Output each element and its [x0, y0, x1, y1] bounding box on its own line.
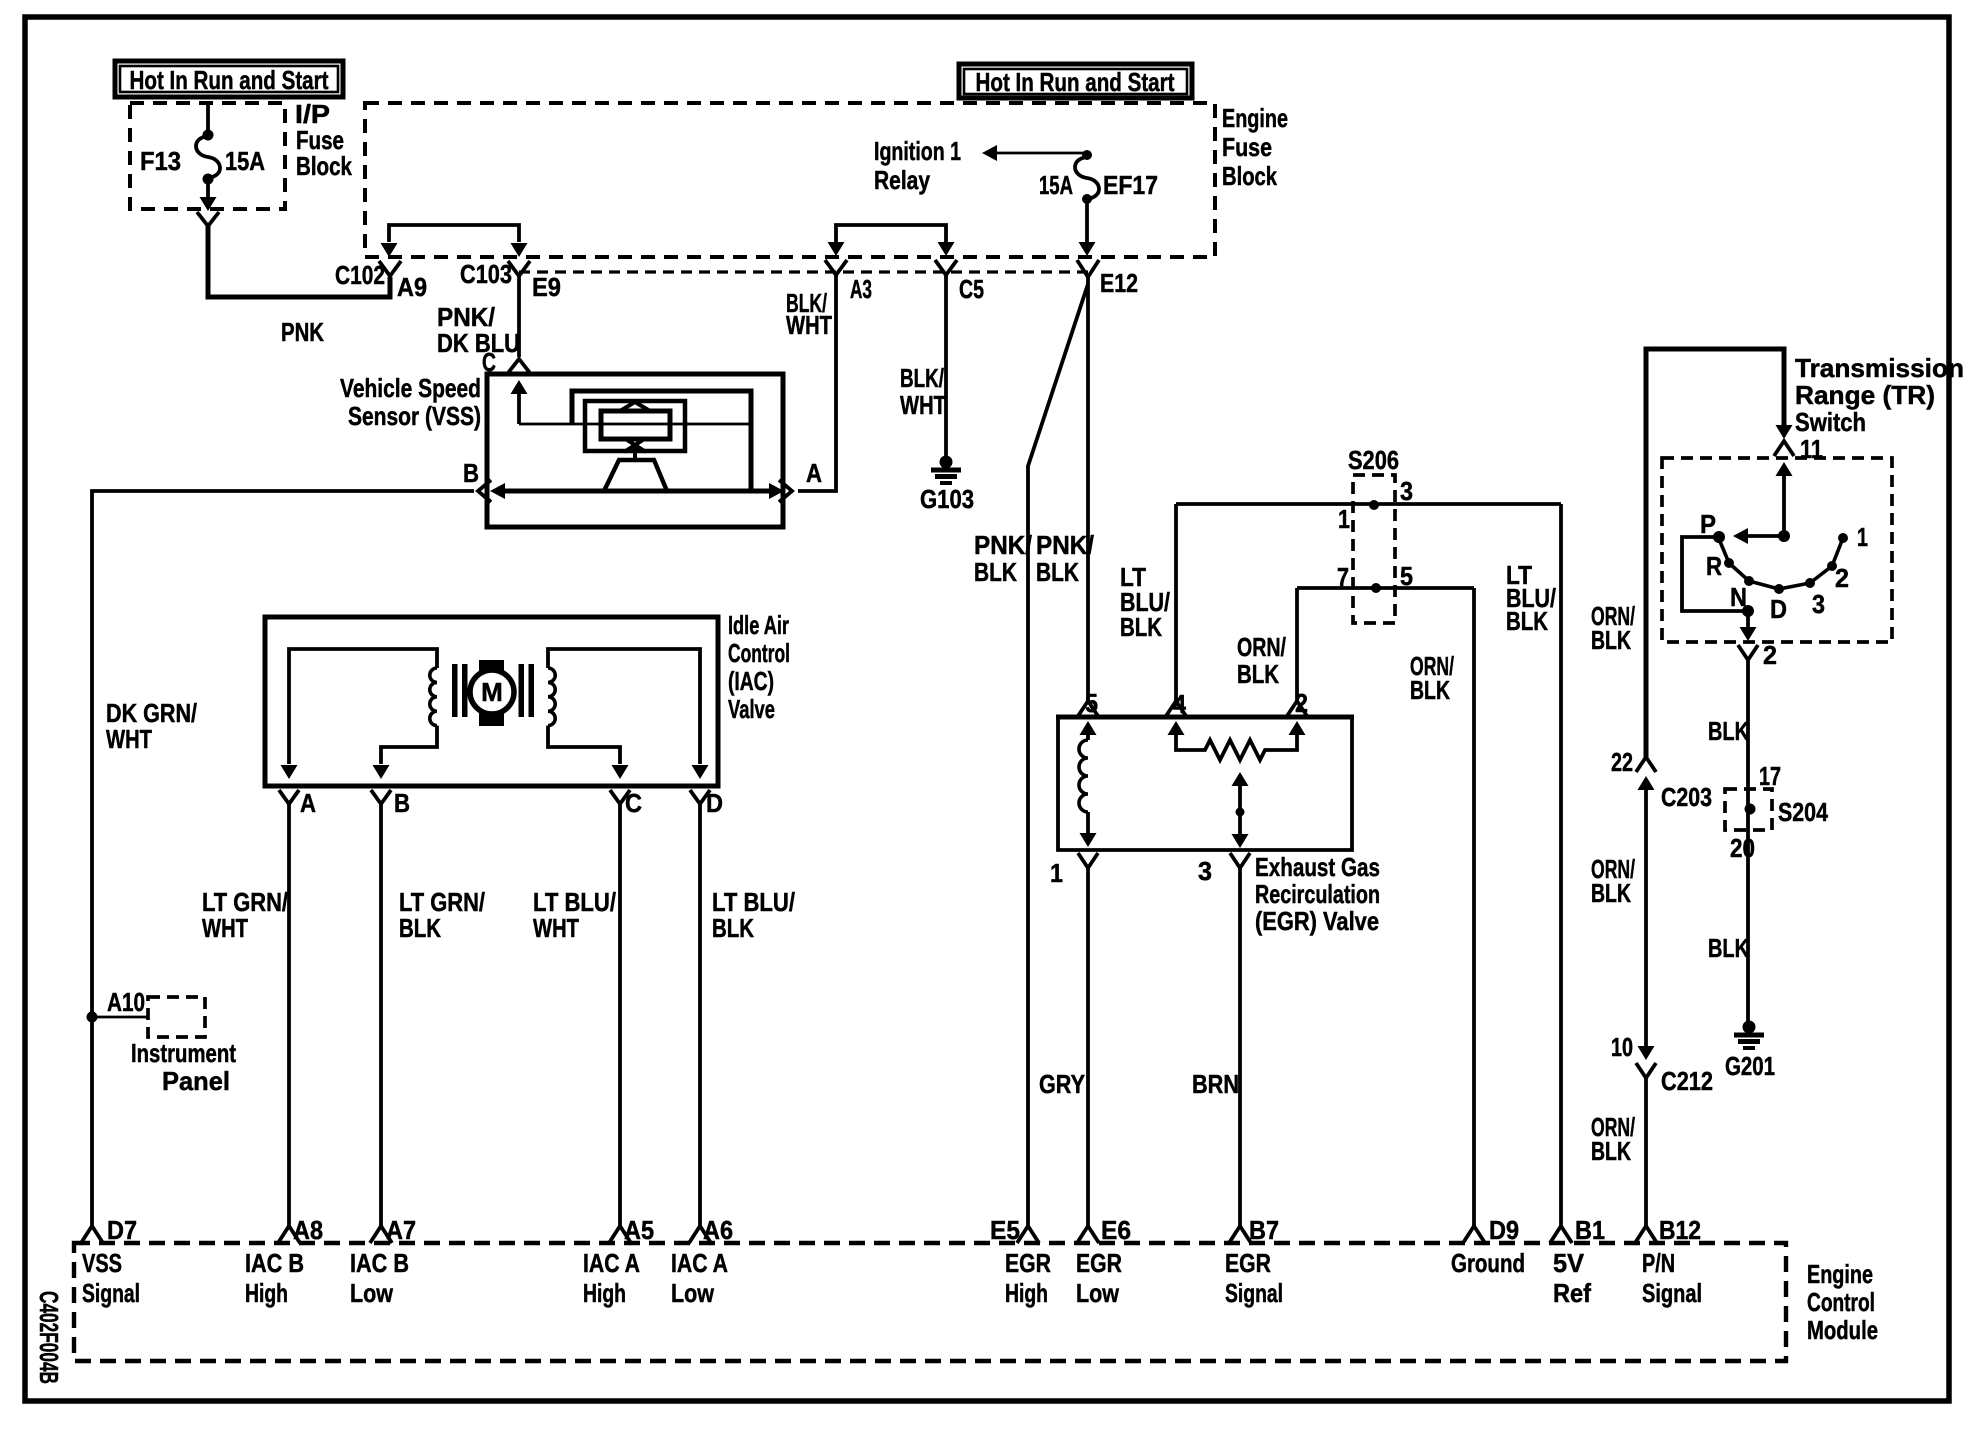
svg-text:M: M [481, 677, 503, 707]
connector A at VSS [779, 480, 792, 502]
svg-text:F13: F13 [140, 146, 181, 176]
EGR valve box [1056, 715, 1354, 720]
svg-text:PNK/: PNK/ [974, 530, 1032, 560]
svg-text:Valve: Valve [728, 694, 775, 724]
wire LT BLU/BLK S206-1 to EGR 4 [1174, 504, 1178, 702]
Idle Air Control valve box [265, 617, 718, 786]
svg-text:Signal: Signal [1642, 1278, 1702, 1308]
svg-text:High: High [583, 1278, 626, 1308]
svg-text:IAC B: IAC B [245, 1248, 304, 1278]
svg-text:Sensor (VSS): Sensor (VSS) [348, 401, 481, 431]
wire DK GRN/WHT B to D7 [92, 491, 474, 1226]
svg-text:WHT: WHT [106, 724, 152, 754]
wire ORN/BLK loop over TR switch [1646, 349, 1784, 757]
svg-text:B12: B12 [1659, 1215, 1701, 1245]
svg-text:BLK: BLK [712, 913, 754, 943]
svg-text:C203: C203 [1661, 782, 1712, 812]
svg-text:2: 2 [1835, 563, 1849, 593]
svg-text:Ground: Ground [1451, 1248, 1525, 1278]
fuse EF17 15A [1075, 157, 1099, 199]
svg-text:15A: 15A [1039, 170, 1073, 200]
ECM pin B1 [1550, 1226, 1572, 1243]
connector row line C102-E12 (dashed) [519, 270, 1089, 273]
svg-text:BLK: BLK [974, 557, 1017, 587]
svg-text:A8: A8 [293, 1215, 323, 1245]
svg-text:B7: B7 [1249, 1215, 1279, 1245]
svg-text:Instrument: Instrument [131, 1038, 236, 1068]
ground G103 [940, 456, 953, 469]
svg-text:5: 5 [1085, 688, 1098, 718]
wire LT GRN/WHT A to A8 [287, 804, 291, 1226]
svg-text:Ignition 1: Ignition 1 [874, 136, 961, 166]
Vehicle Speed Sensor box [487, 374, 783, 527]
egr solenoid coil [1086, 733, 1090, 740]
flag: Hot In Run and Start (Engine) [959, 64, 1192, 98]
connector C at VSS [508, 359, 530, 373]
svg-text:A10: A10 [107, 987, 145, 1017]
connector 2 below TR [1738, 645, 1758, 660]
svg-text:BLK: BLK [1506, 606, 1548, 636]
egr wiper [1232, 772, 1249, 786]
svg-text:BLK: BLK [1708, 716, 1749, 746]
vss pickup bowtie [624, 438, 646, 460]
svg-text:1: 1 [1050, 858, 1063, 888]
svg-text:Transmission: Transmission [1795, 353, 1964, 383]
svg-text:Low: Low [350, 1278, 394, 1308]
svg-text:C: C [625, 788, 642, 818]
wire LT BLU/BLK S206-3 to B1 [1559, 504, 1563, 1226]
svg-text:B: B [394, 788, 410, 818]
vss trapezoid [604, 460, 667, 491]
svg-text:A: A [300, 788, 316, 818]
svg-text:A3: A3 [850, 274, 872, 304]
Engine Fuse Block (dashed) [365, 103, 1215, 257]
svg-text:22: 22 [1611, 747, 1633, 777]
svg-text:17: 17 [1759, 761, 1781, 791]
svg-text:WHT: WHT [900, 390, 946, 420]
svg-text:5V: 5V [1553, 1248, 1585, 1278]
svg-text:BLK: BLK [1591, 625, 1631, 655]
svg-text:WHT: WHT [202, 913, 248, 943]
svg-text:1: 1 [1338, 504, 1350, 534]
wire PNK/DK BLU C103 to VSS C [517, 276, 521, 357]
svg-text:BLK: BLK [1120, 612, 1162, 642]
svg-text:5: 5 [1400, 561, 1413, 591]
wire BLK TR to S204 [1746, 660, 1750, 789]
wire PNK/BLK E12 to E5 [1028, 284, 1088, 1226]
svg-text:High: High [1005, 1278, 1048, 1308]
svg-text:Control: Control [1807, 1287, 1875, 1317]
svg-text:IAC B: IAC B [350, 1248, 409, 1278]
svg-text:B: B [463, 458, 479, 488]
svg-text:15A: 15A [225, 146, 265, 176]
vss internal horizontal wire [519, 423, 751, 426]
svg-text:C5: C5 [959, 274, 984, 304]
svg-text:D9: D9 [1489, 1215, 1519, 1245]
connector A3 [825, 260, 847, 275]
wire ORN/BLK C203 to C212 [1644, 788, 1648, 1050]
wire ORN/BLK C212 to B12 [1644, 1078, 1648, 1226]
wire PNK/BLK E12 to EGR 5 [1086, 284, 1090, 702]
ECM pin A5 [609, 1226, 631, 1243]
svg-text:Relay: Relay [874, 165, 930, 195]
vss internal frame [572, 391, 751, 489]
svg-text:Signal: Signal [1225, 1278, 1283, 1308]
svg-text:G103: G103 [920, 484, 974, 514]
connector C102 / A9 [379, 261, 401, 276]
ECM pin E6 [1077, 1226, 1099, 1243]
wire BLK/WHT A3 to VSS A [798, 275, 836, 491]
vss pickup top chevron [620, 402, 650, 411]
svg-text:EGR: EGR [1225, 1248, 1271, 1278]
svg-text:Hot In Run and Start: Hot In Run and Start [976, 67, 1175, 97]
svg-text:High: High [245, 1278, 288, 1308]
splice A10 to instrument panel [87, 1012, 98, 1023]
connector B at VSS [478, 480, 491, 502]
svg-text:1: 1 [1857, 522, 1868, 552]
svg-text:A7: A7 [386, 1215, 416, 1245]
svg-text:BLK: BLK [1410, 675, 1450, 705]
svg-text:WHT: WHT [533, 913, 579, 943]
TR contact arc R N D 3 2 1 [1719, 538, 1843, 589]
svg-text:Panel: Panel [162, 1066, 230, 1096]
svg-text:D7: D7 [107, 1215, 137, 1245]
Engine Control Module box (dashed) [74, 1243, 1786, 1361]
egr pin 4 [1166, 701, 1186, 716]
svg-text:E5: E5 [990, 1215, 1020, 1245]
wire ORN/BLK S206-5 to D9 [1472, 588, 1476, 1226]
fuse F13 15A [206, 103, 210, 133]
iac winding A (pins C-D) [548, 649, 700, 764]
svg-text:A6: A6 [703, 1215, 733, 1245]
svg-text:Idle Air: Idle Air [728, 610, 789, 640]
svg-text:R: R [1706, 551, 1722, 581]
splice S204 (dashed) [1725, 789, 1772, 830]
wire ORN/BLK S206-7 row [1297, 586, 1474, 590]
TR rotor arm [1776, 462, 1793, 476]
svg-text:WHT: WHT [786, 310, 832, 340]
svg-text:BLK: BLK [1591, 1136, 1631, 1166]
connector 11 at TR [1774, 441, 1794, 456]
bus wire C102 to C103 [389, 225, 519, 242]
svg-text:3: 3 [1198, 856, 1212, 886]
connector C103 / E9 [508, 261, 530, 276]
svg-text:BRN: BRN [1192, 1069, 1239, 1099]
connector C203 pin 22 [1636, 757, 1656, 772]
ECM pin B12 [1635, 1226, 1657, 1243]
iac pin B [371, 790, 391, 804]
svg-text:IAC A: IAC A [671, 1248, 728, 1278]
svg-text:Fuse: Fuse [1222, 132, 1272, 162]
wire LT GRN/BLK B to A7 [379, 804, 383, 1226]
ECM pin D7 [81, 1226, 103, 1243]
connector C212 pin 10 [1638, 1046, 1655, 1060]
svg-text:PNK: PNK [281, 317, 324, 347]
svg-text:GRY: GRY [1039, 1069, 1085, 1099]
svg-text:Block: Block [1222, 161, 1277, 191]
svg-text:EGR: EGR [1005, 1248, 1051, 1278]
iac pin D [690, 790, 710, 804]
wire ORN/BLK S206-7 to EGR 2 [1295, 588, 1299, 702]
wire BLK S204 to G201 [1746, 830, 1750, 1022]
vss internal arrow from C [517, 392, 521, 424]
TR contact P [1713, 531, 1725, 543]
ECM pin A6 [689, 1226, 711, 1243]
vss bottom arrow wire B-A [498, 489, 776, 494]
svg-text:D: D [1770, 594, 1787, 624]
svg-text:Module: Module [1807, 1315, 1878, 1345]
svg-text:Control: Control [728, 638, 790, 668]
svg-text:3: 3 [1812, 589, 1825, 619]
svg-text:C103: C103 [460, 259, 512, 289]
svg-text:2: 2 [1763, 640, 1777, 670]
svg-text:BLK: BLK [399, 913, 441, 943]
svg-text:E12: E12 [1100, 268, 1138, 298]
svg-text:A: A [806, 458, 822, 488]
egr pin 1 [1078, 853, 1098, 868]
svg-text:EF17: EF17 [1103, 170, 1158, 200]
svg-text:BLK/: BLK/ [900, 363, 944, 393]
svg-text:PNK/: PNK/ [1036, 530, 1094, 560]
wire GRY EGR1 to E6 [1086, 868, 1090, 1226]
svg-text:Engine: Engine [1807, 1259, 1873, 1289]
svg-text:Range (TR): Range (TR) [1795, 380, 1935, 410]
svg-text:Exhaust Gas: Exhaust Gas [1255, 852, 1380, 882]
svg-text:Block: Block [296, 151, 352, 181]
egr pin 3 [1230, 853, 1250, 868]
svg-text:B1: B1 [1575, 1215, 1605, 1245]
svg-text:A5: A5 [624, 1215, 654, 1245]
svg-text:C402F004B: C402F004B [34, 1291, 64, 1384]
iac winding B (pins A-B) [289, 649, 437, 764]
ECM pin D9 [1463, 1226, 1485, 1243]
egr pin 5 [1078, 701, 1098, 716]
svg-text:Ref: Ref [1553, 1278, 1591, 1308]
svg-text:Switch: Switch [1795, 407, 1866, 437]
svg-text:Hot In Run and Start: Hot In Run and Start [130, 65, 329, 95]
svg-text:EGR: EGR [1076, 1248, 1122, 1278]
svg-text:VSS: VSS [82, 1248, 122, 1278]
egr pintle resistor [1176, 733, 1297, 760]
svg-text:BLK: BLK [1036, 557, 1079, 587]
wire LT BLU/BLK S206-1 row [1176, 502, 1561, 506]
TR switch box (dashed) [1662, 458, 1892, 642]
wire BLK/WHT C5 to G103 [944, 275, 948, 457]
wire BRN EGR3 to B7 [1238, 868, 1242, 1226]
iac motor M [452, 664, 458, 717]
ECM pin A8 [278, 1226, 300, 1243]
svg-text:D: D [706, 788, 723, 818]
svg-text:E6: E6 [1101, 1215, 1131, 1245]
svg-text:S206: S206 [1348, 445, 1399, 475]
wire PNK [208, 226, 390, 297]
svg-text:E9: E9 [532, 272, 561, 302]
connector E12 [1077, 260, 1099, 277]
svg-text:A9: A9 [397, 272, 427, 302]
svg-text:DK BLU: DK BLU [437, 328, 520, 358]
I/P Fuse Block (dashed) [130, 103, 285, 209]
svg-text:Low: Low [671, 1278, 715, 1308]
iac pin A [279, 790, 299, 804]
svg-text:BLK: BLK [1708, 933, 1749, 963]
vss pickup inner rect [601, 411, 670, 439]
wire LT BLU/WHT C to A5 [618, 804, 622, 1226]
svg-text:3: 3 [1400, 476, 1413, 506]
vss pickup outer rect [585, 401, 685, 451]
svg-text:Vehicle Speed: Vehicle Speed [340, 373, 481, 403]
ECM pin E5 [1017, 1226, 1039, 1243]
svg-text:P/N: P/N [1642, 1248, 1675, 1278]
egr pin 2 [1287, 701, 1307, 716]
ECM pin A7 [370, 1226, 392, 1243]
svg-text:ORN/: ORN/ [1237, 632, 1286, 662]
svg-text:S204: S204 [1778, 797, 1828, 827]
connector C5 [935, 260, 957, 275]
Instrument Panel (dashed) [148, 997, 205, 1037]
svg-text:P: P [1700, 509, 1716, 539]
connector half below F13 [197, 212, 219, 226]
svg-text:C212: C212 [1661, 1066, 1713, 1096]
svg-text:Engine: Engine [1222, 103, 1288, 133]
ECM pin B7 [1229, 1226, 1251, 1243]
svg-text:(EGR) Valve: (EGR) Valve [1255, 906, 1379, 936]
svg-text:7: 7 [1337, 562, 1349, 592]
svg-text:G201: G201 [1725, 1051, 1775, 1081]
svg-text:Low: Low [1076, 1278, 1120, 1308]
svg-text:BLK: BLK [1237, 659, 1279, 689]
svg-text:10: 10 [1611, 1032, 1633, 1062]
svg-text:(IAC): (IAC) [728, 666, 774, 696]
ground G201 [1743, 1021, 1756, 1034]
svg-text:BLK: BLK [1591, 878, 1631, 908]
svg-text:C102: C102 [335, 260, 385, 290]
svg-text:Recirculation: Recirculation [1255, 879, 1380, 909]
bus wire A3 to C5 [836, 225, 946, 242]
svg-text:Signal: Signal [82, 1278, 140, 1308]
wire LT BLU/BLK D to A6 [698, 804, 702, 1226]
svg-text:IAC A: IAC A [583, 1248, 640, 1278]
TR wire P to pin 2 [1682, 537, 1748, 611]
iac pin C [610, 790, 630, 804]
svg-text:20: 20 [1730, 833, 1755, 863]
flag: Hot In Run and Start (I/P) [115, 61, 343, 97]
